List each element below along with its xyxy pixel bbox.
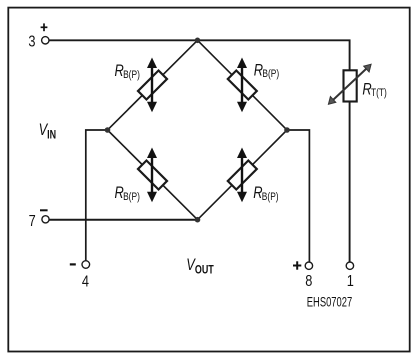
node: bridge bottom junction	[195, 217, 201, 223]
label 4	[82, 273, 89, 291]
resistor RT(T): body	[344, 70, 357, 101]
caption EHS07027	[307, 295, 352, 310]
svg-text:B(P): B(P)	[262, 68, 279, 80]
resistor RB(P) bottom-left: body	[138, 161, 167, 190]
resistor RB(P) top-right: pressure arrow	[237, 58, 247, 113]
wire: bridge diagonal left node to bottom node	[108, 130, 198, 220]
resistor RB(P) top-left: pressure arrow	[147, 58, 157, 113]
svg-text:7: 7	[29, 213, 36, 231]
wire: top rail from terminal 3 to RT(T) branch	[49, 40, 350, 70]
resistor RB(P) bottom-right: pressure arrow	[237, 148, 247, 203]
label 3	[28, 33, 35, 51]
plus sign at terminal 8	[293, 261, 301, 269]
resistor RB(P) top-right: body	[228, 71, 257, 100]
node: bridge right junction	[284, 127, 290, 133]
wire: bridge diagonal top node to right node	[198, 40, 288, 130]
resistor RT(T): temperature arrow	[328, 64, 371, 104]
resistor RB(P) bottom-right: body	[228, 161, 257, 190]
label RB(P) bottom-left	[115, 185, 140, 203]
label VOUT	[186, 257, 214, 277]
svg-text:4: 4	[82, 273, 89, 291]
terminal 8: pin circle	[305, 262, 312, 269]
label 1	[347, 273, 354, 291]
node: bridge top junction	[195, 38, 201, 44]
label 7	[29, 213, 36, 231]
wire: RT(T) bottom lead to terminal 1	[349, 102, 351, 263]
label RB(P) bottom-right	[253, 185, 278, 203]
minus sign at terminal 4	[70, 263, 76, 265]
svg-text:B(P): B(P)	[123, 191, 140, 203]
resistor RB(P) bottom-left: pressure arrow	[147, 148, 157, 203]
svg-text:8: 8	[305, 273, 312, 291]
terminal 4: pin circle	[82, 261, 90, 269]
label RB(P) top-left	[115, 63, 140, 81]
svg-text:EHS07027: EHS07027	[307, 295, 352, 310]
terminal 1: pin circle	[346, 262, 353, 269]
resistor RB(P) top-left: body	[138, 71, 167, 100]
terminal 7: pin circle	[42, 216, 49, 223]
plus sign at terminal 3	[41, 23, 48, 31]
svg-text:B(P): B(P)	[123, 69, 140, 81]
wire: bridge diagonal right node to bottom node	[198, 130, 288, 220]
wire: terminal 7 to bottom node	[49, 219, 197, 221]
svg-text:T(T): T(T)	[371, 87, 387, 99]
label RB(P) top-right	[254, 62, 279, 80]
svg-text:3: 3	[28, 33, 35, 51]
svg-text:1: 1	[347, 273, 354, 291]
terminal 3: pin circle	[42, 37, 49, 44]
wire: right node to terminal 8	[287, 130, 309, 262]
label VIN	[39, 121, 57, 141]
svg-text:B(P): B(P)	[262, 191, 279, 203]
wire: left node to terminal 4	[86, 130, 108, 261]
label RT(T)	[362, 81, 386, 99]
minus sign at terminal 7	[40, 209, 48, 211]
wire: bridge diagonal top node to left node	[108, 40, 198, 130]
label 8	[305, 273, 312, 291]
node: bridge left junction	[105, 127, 111, 133]
svg-text:IN: IN	[47, 129, 56, 141]
svg-text:OUT: OUT	[195, 265, 215, 277]
